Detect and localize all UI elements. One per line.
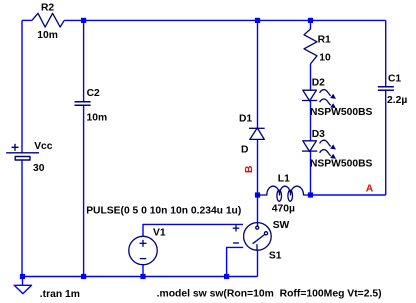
wire V1 plus to switch control plus [143, 224, 243, 236]
svg-text:B: B [244, 166, 255, 173]
junction bottom bus / switch minus [224, 274, 229, 279]
wire D1 to L1 junction (node B) [257, 139, 259, 222]
resistor R2 [32, 13, 64, 27]
LED D2 [302, 90, 336, 109]
svg-text:R2: R2 [41, 2, 54, 13]
inductor L1 [258, 186, 311, 201]
svg-text:NSPW500BS: NSPW500BS [310, 107, 373, 118]
svg-text:10: 10 [319, 52, 331, 63]
svg-text:470µ: 470µ [272, 204, 295, 215]
wire V1 minus to bottom bus [142, 265, 144, 277]
svg-text:.tran 1m: .tran 1m [40, 289, 80, 300]
svg-text:2.2µ: 2.2µ [387, 95, 407, 106]
svg-text:D1: D1 [239, 114, 252, 125]
wire D3 to node A junction [310, 151, 312, 195]
wire C2 rail lower [83, 105, 85, 276]
wire C2 rail upper [83, 20, 85, 101]
svg-text:10m: 10m [37, 30, 58, 41]
junction node B / L1 left [255, 192, 260, 197]
junction bottom bus / V1 [140, 274, 145, 279]
svg-text:.model sw sw(Ron=10m Roff=100: .model sw sw(Ron=10m Roff=100Meg Vt=2.5) [157, 289, 382, 300]
wire D2 to D3 [310, 101, 312, 141]
wire D1 rail upper [257, 20, 259, 128]
svg-text:30: 30 [33, 163, 45, 174]
svg-text:SW: SW [273, 220, 290, 231]
wire switch control minus to bottom bus [227, 247, 244, 276]
LED D3 [302, 140, 336, 159]
wire switch bottom [257, 251, 259, 277]
wire left rail lower [21, 160, 23, 277]
junction top bus / C2 [81, 18, 86, 23]
junction top bus / R1 [308, 18, 313, 23]
wire node A horizontal [311, 194, 386, 196]
svg-text:L1: L1 [278, 173, 290, 184]
wire bottom bus [22, 276, 258, 278]
junction bottom bus / ground [20, 274, 25, 279]
wire C1 rail lower [385, 90, 387, 195]
diode D1 [249, 128, 265, 139]
svg-text:S1: S1 [269, 251, 282, 262]
ground red anchor dot [13, 285, 15, 287]
svg-text:NSPW500BS: NSPW500BS [310, 158, 373, 169]
svg-text:D3: D3 [312, 129, 325, 140]
junction node A / L1 right [308, 192, 313, 197]
svg-text:A: A [366, 184, 374, 195]
svg-text:C2: C2 [87, 88, 100, 99]
junction bottom bus / C2 [81, 274, 86, 279]
junction top bus / D1 [255, 18, 260, 23]
ground [14, 277, 31, 294]
svg-text:10m: 10m [87, 113, 108, 124]
wire R1 to D2 [310, 64, 312, 90]
capacitor C2 [75, 102, 91, 106]
battery Vcc [6, 144, 39, 160]
svg-text:D2: D2 [312, 77, 325, 88]
svg-text:C1: C1 [388, 73, 401, 84]
wire top bus right of R2 [64, 19, 386, 21]
wire C1 rail upper [385, 20, 387, 86]
svg-text:Vcc: Vcc [34, 141, 53, 152]
svg-text:R1: R1 [318, 35, 331, 46]
switch S1 [233, 223, 271, 251]
svg-text:PULSE(0 5 0 10n 10n 0.234u 1u): PULSE(0 5 0 10n 10n 0.234u 1u) [86, 206, 241, 217]
capacitor C1 [378, 87, 394, 91]
wire left rail upper [21, 20, 23, 152]
svg-text:V1: V1 [153, 227, 166, 238]
svg-text:D: D [241, 145, 248, 156]
resistor R1 [304, 29, 317, 64]
wire top bus left of R2 [22, 19, 32, 21]
voltage source V1 [129, 236, 157, 264]
wire R1 top lead [310, 20, 312, 29]
